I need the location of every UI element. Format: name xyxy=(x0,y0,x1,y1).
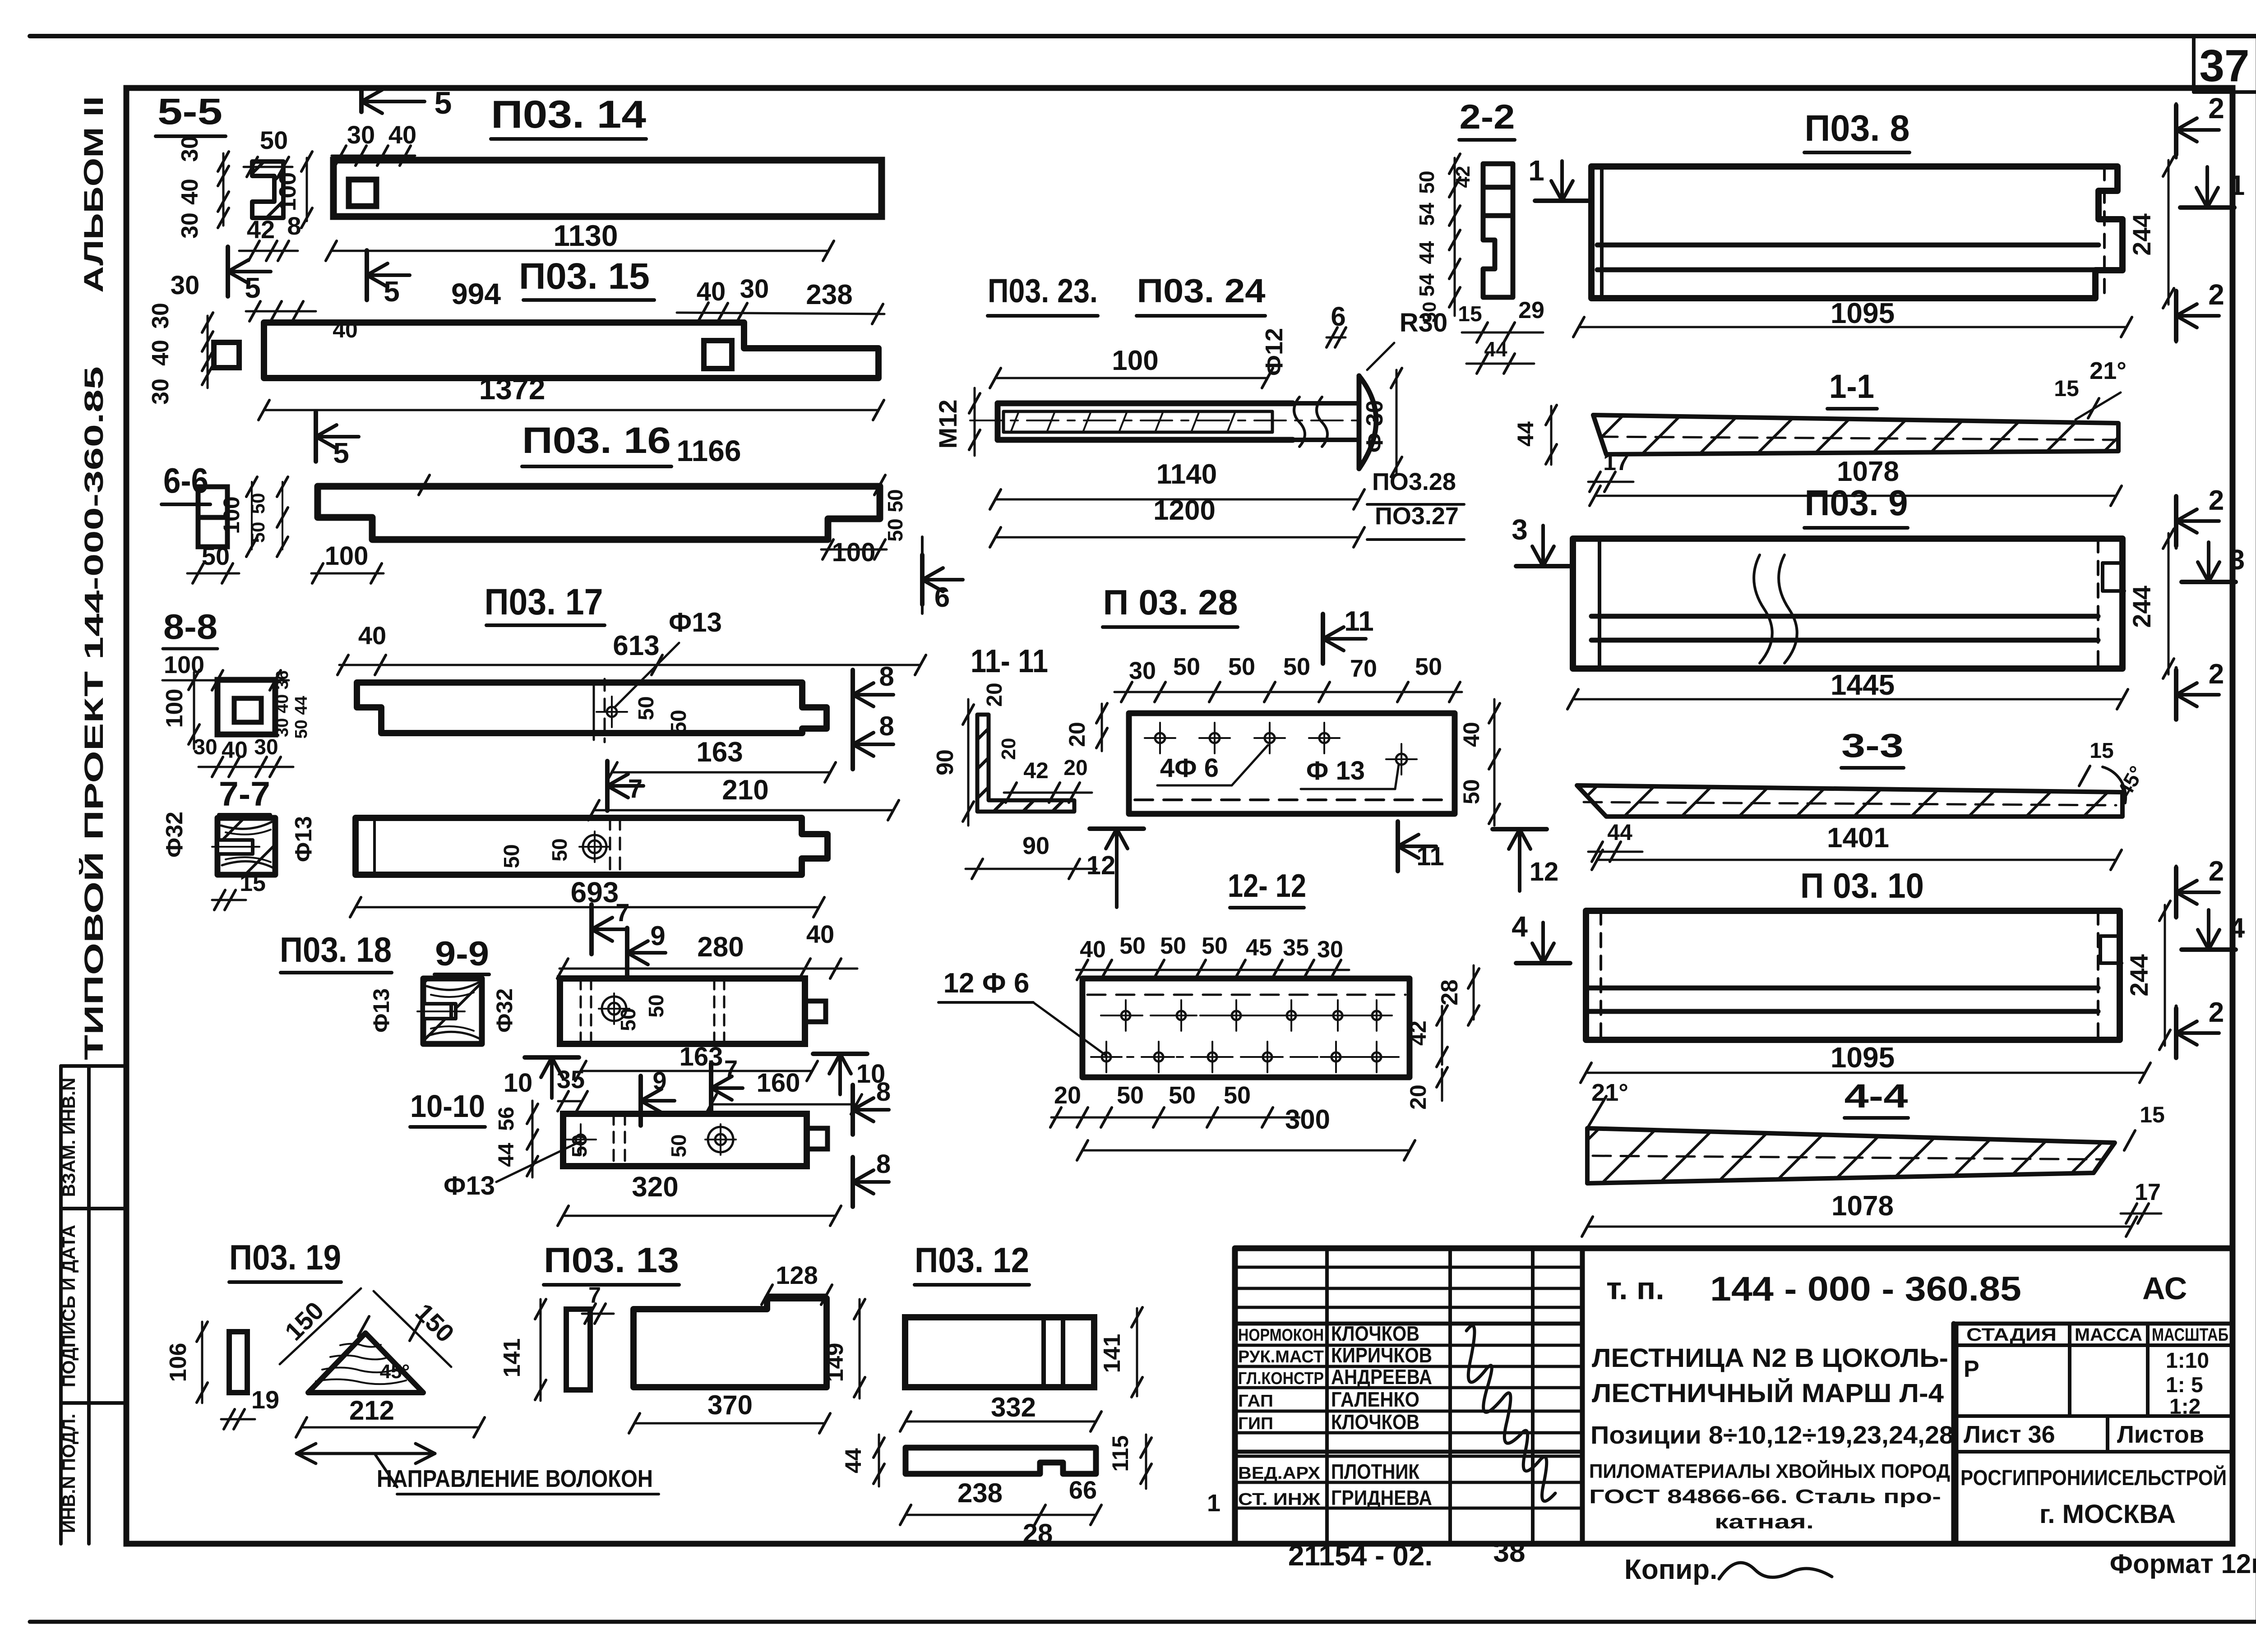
svg-text:1: 1 xyxy=(1207,1490,1220,1517)
svg-text:СТ. ИНЖ: СТ. ИНЖ xyxy=(1238,1490,1321,1509)
svg-text:9-9: 9-9 xyxy=(435,935,489,973)
svg-text:ЛЕСТНИЦА N2 В ЦОКОЛЬ-: ЛЕСТНИЦА N2 В ЦОКОЛЬ- xyxy=(1592,1343,1948,1373)
svg-text:320: 320 xyxy=(632,1172,678,1203)
svg-text:НОРМОКОН: НОРМОКОН xyxy=(1238,1326,1324,1345)
svg-text:2: 2 xyxy=(2209,485,2224,516)
svg-text:2: 2 xyxy=(2208,92,2224,125)
svg-text:50: 50 xyxy=(1228,653,1255,680)
svg-text:15: 15 xyxy=(2140,1102,2165,1127)
svg-text:П03. 16: П03. 16 xyxy=(522,420,671,461)
svg-text:30: 30 xyxy=(347,120,375,149)
section mark 5 lower left xyxy=(226,247,230,296)
svg-text:42: 42 xyxy=(247,215,275,244)
svg-text:90: 90 xyxy=(932,749,958,775)
svg-text:15: 15 xyxy=(2054,376,2079,401)
svg-text:7: 7 xyxy=(628,774,643,803)
border top line xyxy=(30,34,2256,38)
svg-text:2: 2 xyxy=(2209,997,2224,1028)
POS28 dashed line xyxy=(1135,798,1448,801)
svg-text:М12: М12 xyxy=(934,400,962,449)
part POS14 bar xyxy=(333,160,882,217)
part POS18 top view xyxy=(560,978,805,1044)
svg-text:300: 300 xyxy=(1285,1104,1330,1135)
svg-text:ПОДПИСЬ И ДАТА: ПОДПИСЬ И ДАТА xyxy=(59,1225,79,1387)
svg-text:30: 30 xyxy=(1129,657,1156,684)
svg-text:56: 56 xyxy=(495,1107,518,1131)
svg-text:Ф 30: Ф 30 xyxy=(1362,400,1388,453)
svg-text:141: 141 xyxy=(1099,1334,1125,1373)
vertical chain 30 40 30 POS15 xyxy=(207,316,209,388)
svg-text:Р: Р xyxy=(1964,1356,1979,1382)
svg-text:6: 6 xyxy=(934,582,950,613)
svg-text:9: 9 xyxy=(650,921,665,951)
title block verticals left part xyxy=(1325,1248,1329,1544)
section mark 4 down left xyxy=(1516,961,1570,965)
section mark 5 for 6-6 xyxy=(314,412,318,461)
svg-text:40: 40 xyxy=(1459,722,1484,747)
svg-text:5: 5 xyxy=(435,85,452,120)
11-11 angle xyxy=(977,715,1074,812)
svg-text:238: 238 xyxy=(806,279,852,310)
svg-text:70: 70 xyxy=(1350,655,1377,682)
svg-text:280: 280 xyxy=(697,932,744,963)
svg-text:30: 30 xyxy=(740,274,769,304)
svg-text:50: 50 xyxy=(1117,1082,1144,1109)
section 3-3 plank xyxy=(1577,785,2122,817)
bolt break squiggle xyxy=(1294,397,1305,447)
svg-text:19: 19 xyxy=(251,1385,279,1414)
svg-text:50 44: 50 44 xyxy=(292,696,311,738)
svg-text:35: 35 xyxy=(557,1065,585,1094)
svg-text:50: 50 xyxy=(1202,933,1228,959)
svg-text:1078: 1078 xyxy=(1831,1191,1894,1222)
bottom bar hole xyxy=(588,840,601,853)
section 2-2 profile xyxy=(1483,164,1513,297)
svg-text:1166: 1166 xyxy=(676,434,741,467)
svg-text:1372: 1372 xyxy=(479,372,546,406)
12-12 centreline top xyxy=(1101,1015,1399,1016)
svg-text:ГАЛЕНКО: ГАЛЕНКО xyxy=(1331,1388,1419,1411)
svg-text:6-6: 6-6 xyxy=(163,461,208,500)
section mark 3 down left xyxy=(1516,564,1570,568)
12-12 holes bottom row xyxy=(1102,1052,1111,1061)
svg-text:1095: 1095 xyxy=(1831,1041,1895,1074)
svg-text:38: 38 xyxy=(1493,1536,1525,1568)
svg-text:11- 11: 11- 11 xyxy=(971,643,1048,679)
svg-text:50: 50 xyxy=(1169,1082,1196,1109)
svg-text:37: 37 xyxy=(2199,41,2249,91)
svg-text:Позиции 8÷10,12÷19,23,24,28: Позиции 8÷10,12÷19,23,24,28 xyxy=(1590,1421,1954,1449)
svg-text:30: 30 xyxy=(193,735,217,759)
svg-text:613: 613 xyxy=(613,630,659,661)
bolt right shaft to head xyxy=(1293,401,1359,406)
grain direction arrow xyxy=(296,1452,435,1455)
part POS8 xyxy=(1591,166,2122,298)
svg-text:2: 2 xyxy=(2209,856,2224,887)
svg-text:ИНВ.N ПОДЛ.: ИНВ.N ПОДЛ. xyxy=(59,1414,79,1533)
svg-text:П03. 24: П03. 24 xyxy=(1137,272,1266,309)
svg-text:163: 163 xyxy=(680,1042,723,1071)
marks 2 3 right POS9 xyxy=(2174,496,2178,546)
svg-text:г. МОСКВА: г. МОСКВА xyxy=(2039,1500,2176,1529)
svg-text:1401: 1401 xyxy=(1827,822,1889,854)
section mark 7 xyxy=(605,761,610,811)
svg-text:11: 11 xyxy=(1344,606,1374,637)
part POS19 thin bar xyxy=(229,1332,247,1393)
svg-text:КЛОЧКОВ: КЛОЧКОВ xyxy=(1331,1322,1419,1345)
svg-text:ГОСТ 84866-66. Сталь про-: ГОСТ 84866-66. Сталь про- xyxy=(1589,1486,1941,1508)
svg-text:8-8: 8-8 xyxy=(163,607,217,646)
svg-text:Формат 12г: Формат 12г xyxy=(2110,1549,2256,1579)
svg-text:50: 50 xyxy=(1415,653,1442,680)
svg-text:3-3: 3-3 xyxy=(1841,727,1904,764)
section 6-6 shape xyxy=(198,487,227,547)
svg-text:44: 44 xyxy=(1513,421,1538,447)
svg-text:20: 20 xyxy=(1405,1084,1431,1110)
marks 10 xyxy=(525,1055,579,1060)
svg-text:катная.: катная. xyxy=(1715,1511,1814,1533)
svg-text:50: 50 xyxy=(883,489,907,512)
svg-text:Ф13: Ф13 xyxy=(291,816,317,862)
svg-text:П 03. 10: П 03. 10 xyxy=(1800,866,1924,905)
12-12 centreline bottom xyxy=(1092,1056,1399,1058)
svg-text:7-7: 7-7 xyxy=(219,775,270,813)
svg-text:РУК.МАСТ: РУК.МАСТ xyxy=(1238,1347,1324,1366)
svg-text:4-4: 4-4 xyxy=(1845,1077,1908,1115)
svg-text:50: 50 xyxy=(667,1134,690,1157)
section 5-5 C-channel xyxy=(252,162,283,218)
svg-text:20: 20 xyxy=(1063,756,1087,780)
svg-text:29: 29 xyxy=(1518,297,1544,323)
svg-text:НАПРАВЛЕНИЕ ВОЛОКОН: НАПРАВЛЕНИЕ ВОЛОКОН xyxy=(377,1465,653,1492)
svg-text:212: 212 xyxy=(349,1395,394,1426)
svg-text:50: 50 xyxy=(1119,933,1146,959)
svg-text:21154 - 02.: 21154 - 02. xyxy=(1288,1539,1433,1572)
svg-text:ПЛОТНИК: ПЛОТНИК xyxy=(1331,1460,1420,1483)
svg-text:П03. 17: П03. 17 xyxy=(485,581,603,623)
svg-text:50: 50 xyxy=(1224,1082,1251,1109)
section mark 11 bottom xyxy=(1396,821,1400,871)
svg-text:244: 244 xyxy=(2127,586,2156,628)
POS28 holes row xyxy=(1155,733,1165,743)
svg-text:1130: 1130 xyxy=(553,219,618,252)
svg-text:30: 30 xyxy=(254,735,278,759)
stamp column boxes xyxy=(59,1066,63,1544)
svg-text:238: 238 xyxy=(957,1478,1003,1508)
svg-text:144 - 000 - 360.85: 144 - 000 - 360.85 xyxy=(1710,1270,2021,1308)
svg-text:ВЕД.АРХ: ВЕД.АРХ xyxy=(1238,1464,1321,1483)
svg-text:ГЛ.КОНСТР: ГЛ.КОНСТР xyxy=(1238,1369,1324,1388)
svg-text:8: 8 xyxy=(876,1149,891,1179)
svg-text:П03. 18: П03. 18 xyxy=(280,930,392,969)
svg-text:30: 30 xyxy=(171,271,200,300)
svg-text:15: 15 xyxy=(2090,739,2113,763)
svg-text:28: 28 xyxy=(1437,979,1463,1006)
svg-text:АНДРЕЕВА: АНДРЕЕВА xyxy=(1331,1365,1432,1389)
svg-text:10: 10 xyxy=(504,1068,533,1098)
svg-text:40: 40 xyxy=(806,920,834,948)
svg-text:54: 54 xyxy=(1415,273,1438,297)
section mark 6 right xyxy=(920,555,925,605)
svg-text:20: 20 xyxy=(998,738,1020,760)
svg-text:40: 40 xyxy=(177,179,203,205)
title block outer xyxy=(1235,1248,2233,1544)
svg-text:50: 50 xyxy=(247,493,268,514)
part POS16 bar xyxy=(318,486,880,540)
svg-text:100: 100 xyxy=(832,538,876,567)
svg-text:Ф32: Ф32 xyxy=(492,988,517,1033)
svg-text:Ф13: Ф13 xyxy=(444,1171,495,1200)
part POS12 lower bar xyxy=(906,1448,1096,1474)
section mark 12 up arrows xyxy=(1090,826,1144,831)
svg-text:50: 50 xyxy=(500,844,524,868)
svg-text:1:10: 1:10 xyxy=(2166,1349,2209,1373)
svg-text:50: 50 xyxy=(1459,779,1484,804)
svg-text:106: 106 xyxy=(165,1343,191,1382)
svg-text:30: 30 xyxy=(177,136,203,162)
svg-text:ПИЛОМАТЕРИАЛЫ ХВОЙНЫХ ПОРОД: ПИЛОМАТЕРИАЛЫ ХВОЙНЫХ ПОРОД xyxy=(1589,1459,1950,1482)
svg-text:35: 35 xyxy=(1283,935,1309,961)
part POS15 bar xyxy=(264,323,878,378)
tab right xyxy=(805,1001,826,1022)
svg-text:370: 370 xyxy=(707,1390,753,1420)
svg-text:66: 66 xyxy=(1069,1476,1097,1504)
section mark 5 top xyxy=(359,90,364,112)
svg-text:40: 40 xyxy=(697,277,726,306)
svg-text:50: 50 xyxy=(644,994,668,1017)
svg-text:1:2: 1:2 xyxy=(2169,1395,2201,1419)
svg-text:П03. 15: П03. 15 xyxy=(519,256,650,297)
svg-text:30: 30 xyxy=(1317,937,1343,963)
svg-text:21°: 21° xyxy=(1591,1079,1628,1106)
svg-text:42: 42 xyxy=(1452,166,1474,188)
POS9 break mark xyxy=(1754,555,1772,663)
POS17 hole + dashed line xyxy=(593,683,595,740)
svg-text:ГАП: ГАП xyxy=(1238,1392,1273,1411)
svg-text:1-1: 1-1 xyxy=(1829,368,1874,405)
svg-text:МАССА: МАССА xyxy=(2075,1325,2142,1345)
svg-text:П03. 8: П03. 8 xyxy=(1805,108,1910,149)
svg-text:10-10: 10-10 xyxy=(410,1089,485,1124)
svg-text:12: 12 xyxy=(1530,857,1559,886)
part POS28 plate xyxy=(1129,713,1455,814)
section 9-9 xyxy=(423,978,482,1044)
svg-text:3: 3 xyxy=(2229,545,2245,576)
marks 8 right xyxy=(851,1085,855,1135)
svg-text:П03. 14: П03. 14 xyxy=(491,93,646,136)
section 7-7 round square xyxy=(217,818,275,875)
dims 42 8 below 5-5 xyxy=(239,250,298,252)
svg-text:ТИПОВОЙ ПРОЕКТ 144-000-360: ТИПОВОЙ ПРОЕКТ 144-000-360.85 xyxy=(79,366,109,1060)
svg-text:Лист 36: Лист 36 xyxy=(1964,1421,2055,1448)
svg-text:160: 160 xyxy=(757,1068,800,1098)
section mark 11 top right xyxy=(1321,614,1325,664)
svg-text:Копир.: Копир. xyxy=(1624,1554,1717,1585)
section 1-1 plank xyxy=(1593,415,2118,454)
svg-text:100: 100 xyxy=(1112,345,1158,376)
signature squiggles xyxy=(1466,1326,1555,1501)
svg-text:1: 1 xyxy=(1528,154,1544,187)
svg-text:5: 5 xyxy=(384,275,400,308)
section marks 7 9 above POS18 xyxy=(589,904,594,954)
svg-text:45: 45 xyxy=(1246,935,1272,961)
svg-text:12- 12: 12- 12 xyxy=(1228,868,1306,904)
POS9 right notch xyxy=(2097,539,2099,669)
svg-text:П03. 19: П03. 19 xyxy=(229,1237,341,1277)
svg-text:90: 90 xyxy=(1022,832,1049,859)
svg-text:42: 42 xyxy=(1405,1020,1431,1046)
svg-text:40: 40 xyxy=(222,737,248,763)
dim 1372 xyxy=(264,409,878,411)
POS8 right notch detail xyxy=(2103,166,2106,298)
svg-text:50: 50 xyxy=(1415,171,1438,194)
svg-text:28: 28 xyxy=(1023,1518,1053,1549)
svg-text:П 03. 28: П 03. 28 xyxy=(1103,582,1238,622)
svg-text:50: 50 xyxy=(1173,653,1200,680)
section 8-8 square xyxy=(217,680,275,734)
svg-text:КЛОЧКОВ: КЛОЧКОВ xyxy=(1331,1410,1419,1434)
bolt centreline xyxy=(970,420,1363,421)
svg-text:ПО3.27: ПО3.27 xyxy=(1375,503,1459,530)
part POS18 bottom view 10-10 xyxy=(563,1114,807,1166)
svg-text:АЛЬБОМ II: АЛЬБОМ II xyxy=(79,96,109,293)
12-12 holes top row xyxy=(1121,1011,1130,1020)
svg-text:5: 5 xyxy=(245,272,261,304)
svg-text:40: 40 xyxy=(148,340,174,366)
bolt shaft POS23 xyxy=(998,401,1293,406)
svg-text:54: 54 xyxy=(1415,203,1438,226)
svg-text:20: 20 xyxy=(1064,722,1090,747)
svg-text:50: 50 xyxy=(548,838,571,861)
svg-text:244: 244 xyxy=(2125,954,2153,996)
7-7 inner slot xyxy=(217,840,253,854)
12-12 dashed top xyxy=(1087,994,1405,996)
svg-text:100: 100 xyxy=(275,172,301,212)
svg-text:3: 3 xyxy=(1512,513,1528,546)
svg-text:т. п.: т. п. xyxy=(1606,1271,1664,1306)
dim 1130 xyxy=(331,250,828,252)
svg-text:8: 8 xyxy=(879,711,894,741)
svg-text:100: 100 xyxy=(219,496,244,534)
svg-text:244: 244 xyxy=(2127,213,2156,255)
svg-text:КИРИЧКОВ: КИРИЧКОВ xyxy=(1331,1343,1432,1367)
svg-text:50: 50 xyxy=(616,1008,640,1031)
svg-text:100: 100 xyxy=(162,689,188,728)
svg-text:СТАДИЯ: СТАДИЯ xyxy=(1966,1325,2057,1345)
svg-text:50: 50 xyxy=(202,542,230,570)
name rows xyxy=(1235,1344,1582,1347)
part POS13 thin bar xyxy=(566,1309,590,1390)
svg-text:2-2: 2-2 xyxy=(1460,98,1515,136)
svg-text:21°: 21° xyxy=(2090,357,2127,384)
svg-text:П03. 9: П03. 9 xyxy=(1805,483,1908,523)
marks 2 4 right POS10 xyxy=(2174,868,2178,917)
svg-text:149: 149 xyxy=(822,1343,848,1382)
svg-text:163: 163 xyxy=(696,737,743,768)
svg-text:АС: АС xyxy=(2142,1271,2187,1306)
svg-text:8: 8 xyxy=(879,661,894,692)
page number box xyxy=(2192,36,2196,92)
svg-text:994: 994 xyxy=(451,277,501,310)
svg-text:1095: 1095 xyxy=(1831,297,1895,329)
svg-text:1140: 1140 xyxy=(1156,459,1217,490)
svg-text:693: 693 xyxy=(571,876,619,909)
svg-text:1: 5: 1: 5 xyxy=(2166,1373,2203,1397)
svg-text:Ф13: Ф13 xyxy=(669,607,722,637)
section 4-4 plank xyxy=(1587,1128,2115,1183)
right part of title block xyxy=(1951,1324,1956,1544)
svg-text:115: 115 xyxy=(1108,1435,1133,1472)
svg-text:141: 141 xyxy=(499,1338,525,1378)
part POS10 xyxy=(1586,911,2120,1040)
svg-text:332: 332 xyxy=(991,1392,1036,1422)
svg-text:15: 15 xyxy=(1458,302,1482,326)
svg-text:50: 50 xyxy=(1419,302,1440,323)
svg-text:ГИП: ГИП xyxy=(1238,1414,1273,1433)
section marks 8 right of top bar xyxy=(851,670,855,720)
svg-text:12: 12 xyxy=(1086,851,1116,880)
svg-text:40: 40 xyxy=(358,621,386,650)
svg-text:30: 30 xyxy=(177,212,203,239)
svg-text:ВЗАМ. ИНВ.N: ВЗАМ. ИНВ.N xyxy=(59,1078,79,1197)
svg-text:50: 50 xyxy=(667,710,691,734)
svg-text:42: 42 xyxy=(1023,758,1049,783)
svg-text:Листов: Листов xyxy=(2117,1421,2204,1448)
part 12-12 plate xyxy=(1082,978,1410,1077)
part POS19 triangle xyxy=(308,1333,423,1393)
svg-text:50: 50 xyxy=(1160,933,1186,959)
svg-text:Ф 13: Ф 13 xyxy=(1306,756,1365,785)
POS15 hole left xyxy=(214,342,239,368)
svg-text:РОСГИПРОНИИСЕЛЬСТРОЙ: РОСГИПРОНИИСЕЛЬСТРОЙ xyxy=(1960,1465,2227,1490)
svg-text:МАСШТАБ: МАСШТАБ xyxy=(2152,1325,2228,1345)
POS15 hole right xyxy=(704,341,732,369)
section mark 5 mid xyxy=(365,250,369,300)
svg-text:44: 44 xyxy=(1484,337,1507,361)
svg-text:П03. 23.: П03. 23. xyxy=(988,272,1098,309)
dim 100 right of 5-5 xyxy=(306,158,308,221)
svg-text:4Ф 6: 4Ф 6 xyxy=(1160,753,1219,783)
svg-text:17: 17 xyxy=(2135,1179,2161,1205)
svg-text:20: 20 xyxy=(1054,1082,1081,1109)
dim 50 above 5-5 xyxy=(244,166,292,168)
dim chain left of 5-5 xyxy=(222,153,225,226)
svg-text:5-5: 5-5 xyxy=(157,91,222,132)
svg-text:7: 7 xyxy=(615,898,629,927)
svg-text:30: 30 xyxy=(148,378,174,405)
svg-text:П03. 12: П03. 12 xyxy=(915,1240,1029,1280)
bolt head xyxy=(1359,376,1376,469)
svg-text:5: 5 xyxy=(333,437,349,469)
part POS13 rect xyxy=(633,1298,827,1387)
marks 2 1 right xyxy=(2174,105,2178,155)
svg-text:ГРИДНЕВА: ГРИДНЕВА xyxy=(1331,1486,1432,1509)
svg-text:44: 44 xyxy=(841,1448,866,1473)
svg-text:30: 30 xyxy=(148,303,174,329)
svg-text:П03. 13: П03. 13 xyxy=(544,1240,679,1280)
svg-text:15: 15 xyxy=(240,870,266,896)
svg-text:128: 128 xyxy=(776,1261,818,1289)
svg-text:11: 11 xyxy=(1416,842,1444,871)
POS10 right notch xyxy=(2097,911,2099,1040)
section mark 1 down xyxy=(1535,198,1589,203)
POS14 square hole xyxy=(349,180,376,206)
svg-text:ЛЕСТНИЧНЫЙ МАРШ Л-4: ЛЕСТНИЧНЫЙ МАРШ Л-4 xyxy=(1592,1379,1944,1408)
part POS12 rect xyxy=(905,1317,1094,1387)
svg-text:210: 210 xyxy=(722,775,768,806)
svg-text:ПО3.28: ПО3.28 xyxy=(1372,468,1456,495)
svg-text:44: 44 xyxy=(1415,241,1438,264)
